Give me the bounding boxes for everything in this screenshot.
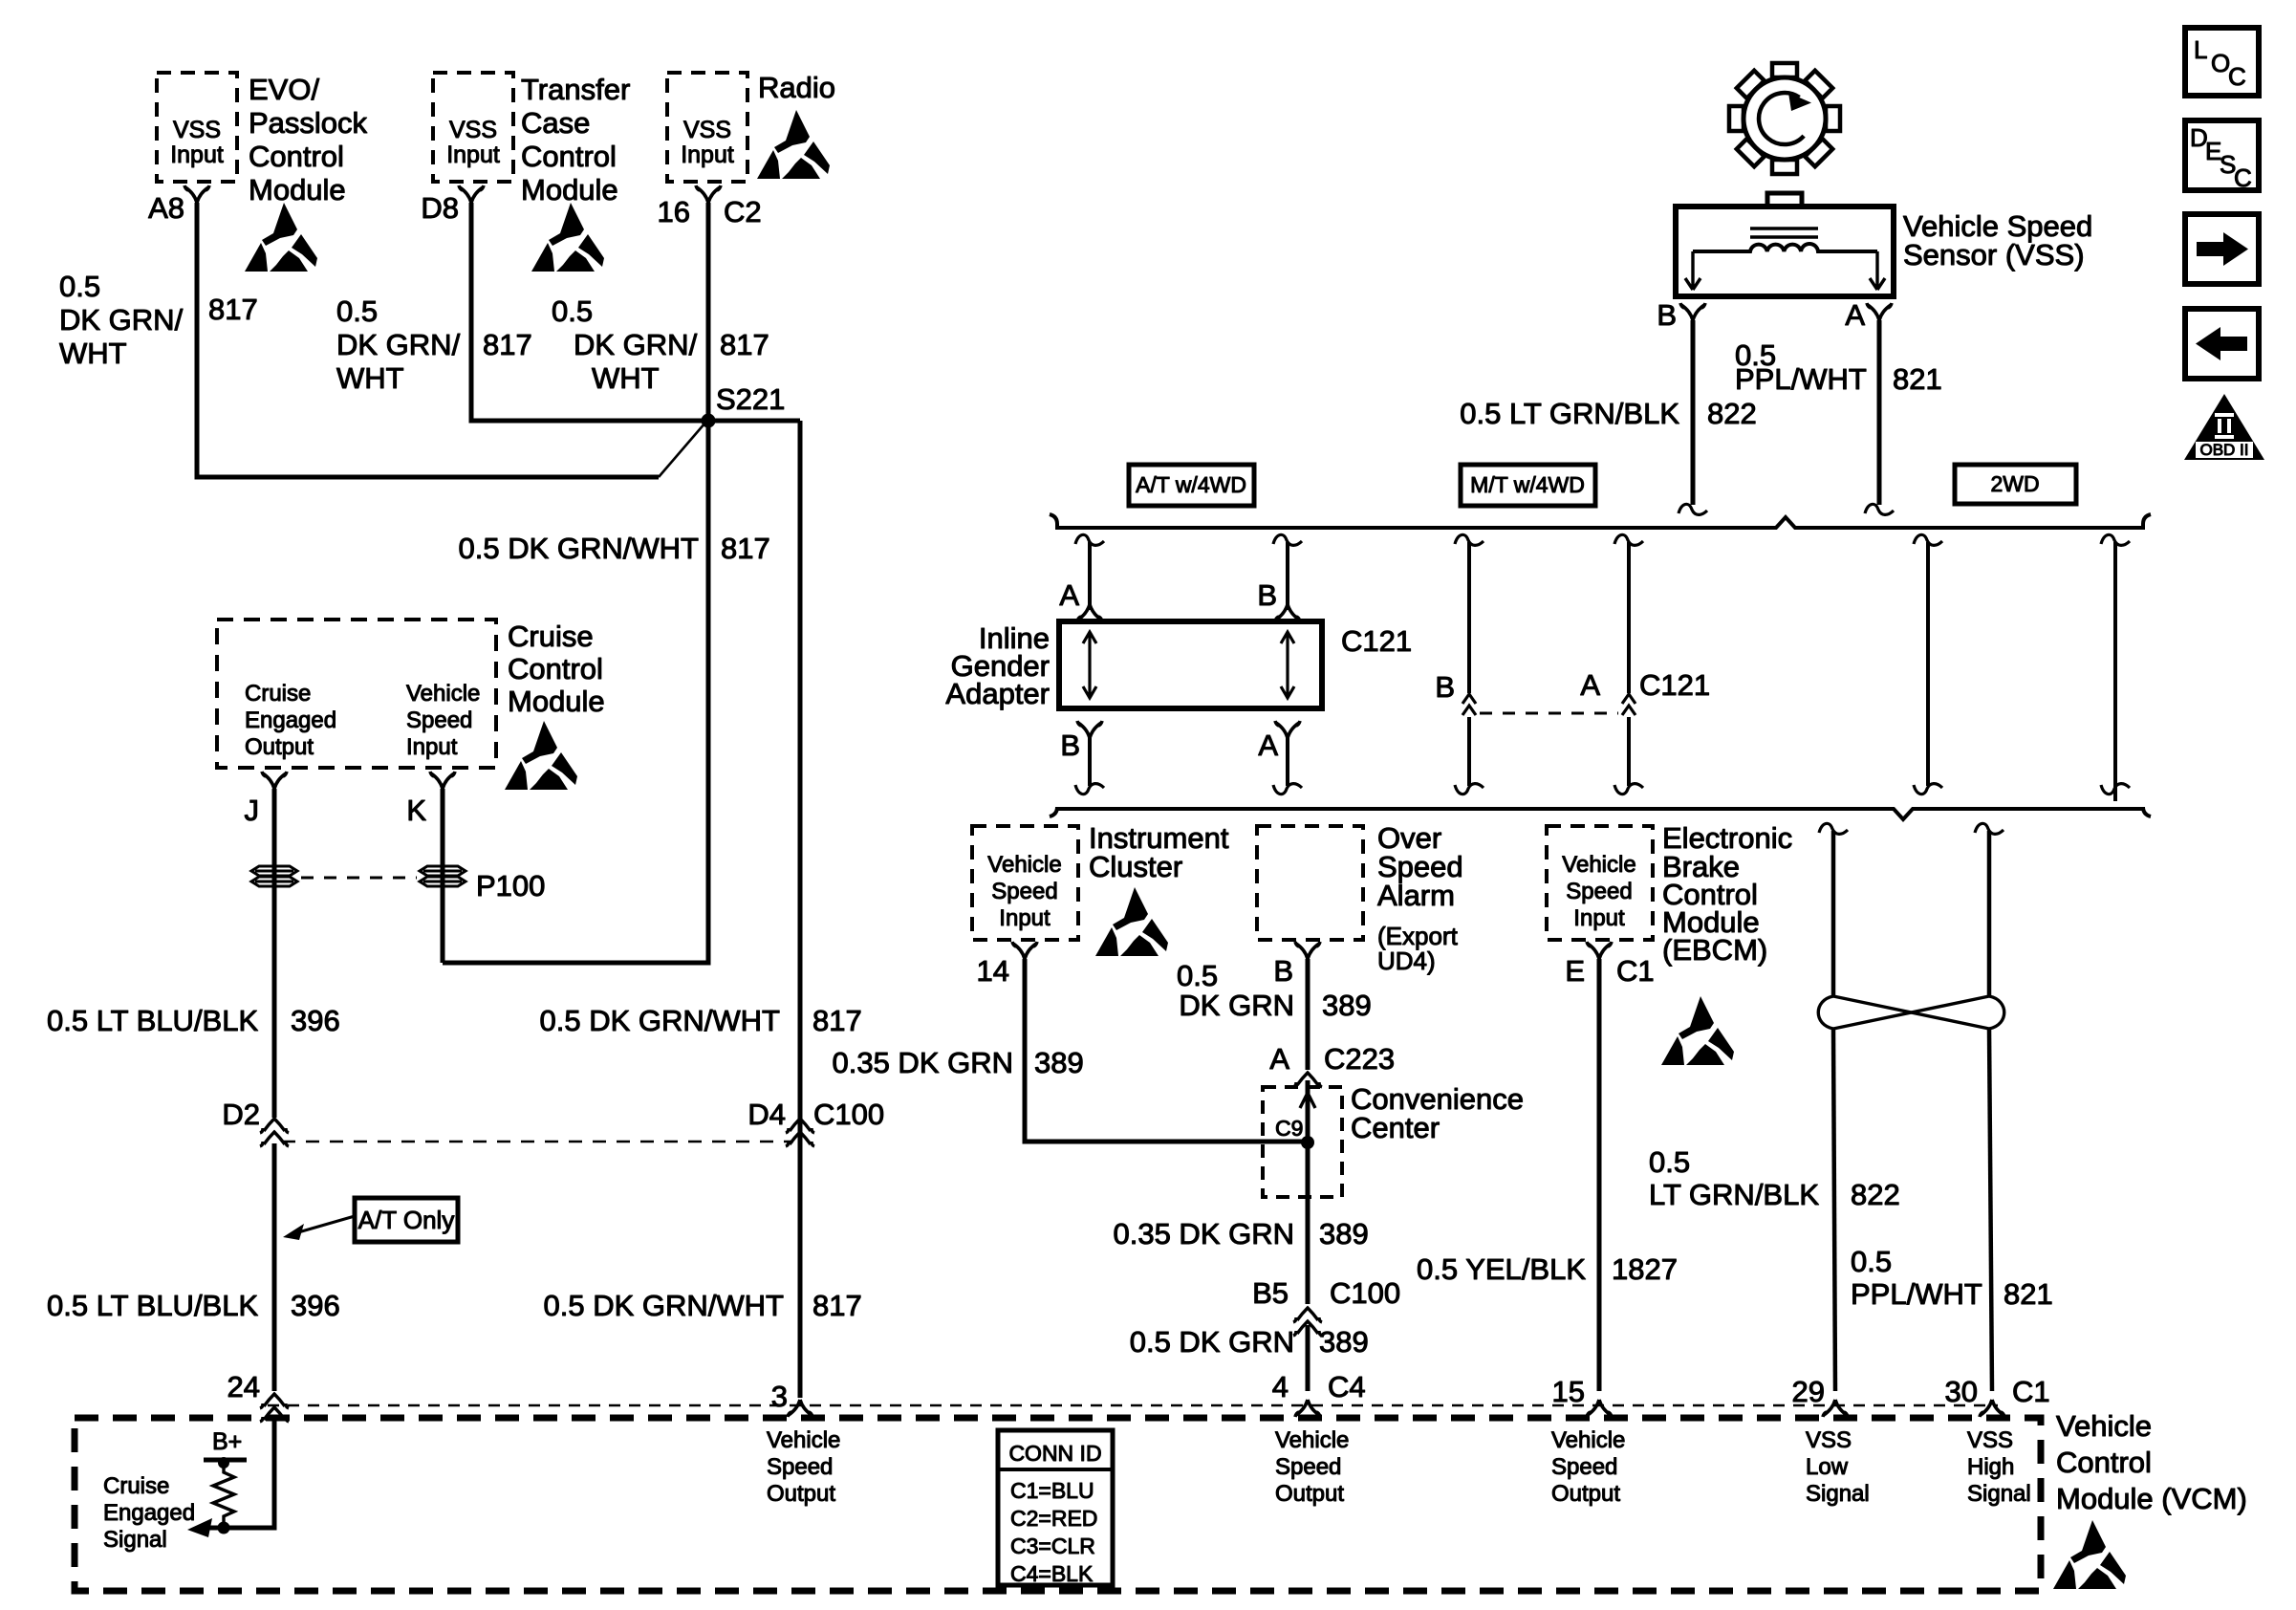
svg-text:Alarm: Alarm [1377, 879, 1455, 912]
svg-text:Cluster: Cluster [1089, 850, 1182, 883]
svg-text:C4: C4 [1328, 1370, 1366, 1403]
CONN ID table box [998, 1430, 1113, 1586]
svg-text:Transfer: Transfer [521, 73, 630, 106]
svg-text:C121: C121 [1639, 668, 1710, 702]
svg-text:817: 817 [721, 532, 770, 565]
svg-text:Control: Control [521, 140, 617, 173]
svg-text:Output: Output [1551, 1481, 1620, 1507]
svg-text:Cruise: Cruise [508, 620, 594, 653]
svg-text:Engaged: Engaged [103, 1500, 195, 1526]
option wire 6 (2WD right) [2101, 534, 2130, 801]
option box A/T w/4WD [1129, 465, 1254, 506]
svg-text:M/T w/4WD: M/T w/4WD [1470, 472, 1585, 497]
wire 1827 from EBCM E to VCM pin 15 [1597, 959, 1602, 1391]
svg-text:2WD: 2WD [1990, 471, 2039, 496]
svg-text:B: B [1435, 670, 1455, 704]
wire into convenience center [1306, 1080, 1310, 1197]
svg-text:Module: Module [521, 173, 618, 207]
module M6 Over Speed Alarm box [1257, 826, 1363, 940]
wire 817 main descent [798, 421, 803, 1398]
svg-text:Vehicle: Vehicle [1551, 1427, 1625, 1453]
svg-text:Speed: Speed [406, 707, 472, 733]
brace bottom alternatives [1050, 807, 2151, 819]
option wire 4 (M/T A) C121 [1580, 534, 1710, 794]
svg-text:30: 30 [1945, 1375, 1978, 1408]
connector A C223 break [1293, 1073, 1322, 1087]
svg-text:0.5: 0.5 [336, 294, 378, 328]
svg-text:Vehicle: Vehicle [767, 1427, 840, 1453]
wire A8 vertical from EVO box [197, 203, 659, 477]
svg-text:Input: Input [170, 141, 224, 168]
wire VSS high signal (30) upper [1975, 823, 2004, 996]
svg-text:Module: Module [249, 173, 346, 207]
svg-text:817: 817 [812, 1004, 862, 1037]
svg-text:Input: Input [999, 905, 1051, 931]
svg-text:C100: C100 [813, 1098, 884, 1131]
dashed link between P100 grommets [301, 877, 417, 880]
svg-text:Control: Control [2056, 1446, 2152, 1479]
svg-text:VSS: VSS [449, 117, 497, 143]
ESD symbol for EVO module [245, 203, 317, 272]
svg-text:C2=RED: C2=RED [1010, 1506, 1097, 1531]
resistor R cruise engaged pull-up [213, 1465, 234, 1524]
svg-text:396: 396 [291, 1289, 340, 1322]
wire 822 from VSS B [1691, 320, 1696, 505]
svg-text:Input: Input [681, 141, 734, 168]
pin connector E C1 [1587, 942, 1612, 959]
svg-text:C121: C121 [1341, 624, 1412, 658]
icon LOC box [2185, 28, 2259, 96]
svg-text:3: 3 [771, 1380, 788, 1413]
svg-text:C1: C1 [2012, 1375, 2050, 1408]
svg-text:PPL/WHT: PPL/WHT [1851, 1277, 1982, 1311]
connector break D4 C100 on 817 wire [786, 1119, 814, 1133]
svg-text:389: 389 [1319, 1217, 1369, 1251]
svg-text:Output: Output [1275, 1481, 1344, 1507]
wire 389 below convenience center [1306, 1197, 1310, 1304]
svg-text:0.5 LT BLU/BLK: 0.5 LT BLU/BLK [47, 1289, 258, 1322]
svg-text:Speed: Speed [1275, 1454, 1341, 1480]
svg-text:0.5 DK GRN: 0.5 DK GRN [1130, 1325, 1294, 1359]
svg-text:C: C [2228, 62, 2246, 91]
svg-text:Input: Input [446, 141, 500, 168]
svg-text:Vehicle: Vehicle [1562, 852, 1635, 878]
svg-text:Signal: Signal [1806, 1481, 1870, 1507]
svg-text:UD4): UD4) [1377, 946, 1436, 975]
module M5 Instrument Cluster VSS input box [972, 826, 1078, 940]
ESD symbol for EBCM [1661, 996, 1734, 1065]
connector break B5 C100 [1293, 1308, 1322, 1322]
B+ terminal [204, 1428, 247, 1469]
svg-text:Control: Control [508, 652, 603, 685]
svg-text:Speed: Speed [1551, 1454, 1617, 1480]
wire J resume below C100 to pin 24 [272, 1143, 277, 1391]
svg-text:E: E [1565, 954, 1585, 988]
ESD symbol for Radio [757, 110, 830, 179]
component U1 Vehicle Speed Sensor box [1676, 193, 1894, 296]
pin connector A of VSS [1867, 303, 1892, 320]
wire C2 vertical to S221 [706, 203, 711, 421]
svg-text:CONN ID: CONN ID [1008, 1441, 1101, 1466]
svg-text:Signal: Signal [103, 1527, 167, 1553]
svg-text:D2: D2 [222, 1098, 260, 1131]
svg-text:0.5: 0.5 [552, 294, 593, 328]
svg-text:396: 396 [291, 1004, 340, 1037]
option box 2WD [1955, 465, 2076, 504]
svg-text:14: 14 [977, 954, 1009, 988]
svg-text:S221: S221 [716, 382, 785, 416]
svg-text:Cruise: Cruise [245, 681, 311, 707]
svg-text:VSS: VSS [1806, 1427, 1852, 1453]
svg-text:24: 24 [227, 1370, 260, 1403]
wire K from cruise to P100 and return [441, 789, 445, 963]
svg-text:DK GRN/: DK GRN/ [574, 328, 698, 361]
svg-text:WHT: WHT [59, 337, 127, 370]
svg-text:VSS: VSS [1967, 1427, 2013, 1453]
svg-text:0.5: 0.5 [1177, 959, 1218, 992]
svg-text:C1: C1 [1616, 954, 1655, 988]
svg-text:VSS: VSS [173, 117, 221, 143]
svg-text:DK GRN: DK GRN [1179, 989, 1294, 1022]
svg-text:High: High [1967, 1454, 2014, 1480]
pin connector D8 [459, 185, 484, 203]
svg-text:A8: A8 [148, 191, 184, 225]
connector face dashed line above VCM [268, 1404, 1998, 1406]
svg-text:Radio: Radio [758, 71, 835, 104]
svg-text:A/T w/4WD: A/T w/4WD [1136, 472, 1246, 497]
svg-text:0.5: 0.5 [1649, 1145, 1690, 1179]
svg-text:LT GRN/BLK: LT GRN/BLK [1649, 1178, 1819, 1211]
brace top alternatives [1050, 514, 2151, 528]
svg-text:Output: Output [767, 1481, 835, 1507]
ESD symbol for Instrument Cluster [1095, 887, 1168, 956]
option wire 2 lower (A) [1258, 721, 1302, 794]
grommet P100 on J wire [251, 866, 297, 886]
svg-text:A/T Only: A/T Only [358, 1206, 455, 1234]
svg-text:0.35 DK GRN: 0.35 DK GRN [1113, 1217, 1294, 1251]
svg-text:Low: Low [1806, 1454, 1849, 1480]
svg-text:L: L [2194, 35, 2207, 64]
wire J cruise engaged to D2 [272, 789, 277, 1118]
svg-text:0.5 LT GRN/BLK: 0.5 LT GRN/BLK [1460, 397, 1679, 430]
svg-text:0.5 LT BLU/BLK: 0.5 LT BLU/BLK [47, 1004, 258, 1037]
svg-text:821: 821 [2004, 1277, 2053, 1311]
svg-text:C9: C9 [1275, 1116, 1303, 1141]
svg-text:Adapter: Adapter [945, 677, 1050, 710]
wire 389 from alarm B [1306, 959, 1310, 1070]
ESD symbol for Transfer Case module [531, 203, 604, 272]
option wire 2 (A/T B) [1257, 534, 1302, 621]
wire to VCM pin 30 [1989, 1029, 1992, 1391]
option box M/T w/4WD [1461, 465, 1595, 506]
svg-text:DK GRN/: DK GRN/ [336, 328, 461, 361]
wire to VCM pin 29 [1833, 1029, 1835, 1391]
module M9 Vehicle Control Module (VCM) box [75, 1418, 2041, 1591]
pin connector B of VSS [1680, 303, 1705, 320]
wire 389 to VCM pin 4 [1306, 1325, 1310, 1391]
svg-text:C: C [2234, 163, 2252, 192]
svg-text:Vehicle: Vehicle [406, 681, 480, 707]
svg-text:WHT: WHT [592, 361, 660, 395]
option wire 1 lower (B) [1060, 721, 1104, 794]
pin 15 connector [1587, 1400, 1612, 1417]
svg-text:Speed: Speed [991, 879, 1057, 904]
svg-text:0.5 DK GRN/WHT: 0.5 DK GRN/WHT [459, 532, 700, 565]
svg-text:A: A [1258, 729, 1278, 762]
callout box A/T Only [283, 1198, 458, 1242]
wire D8 vertical then right to S221 [471, 203, 800, 421]
svg-text:0.5: 0.5 [59, 270, 100, 303]
svg-text:389: 389 [1322, 989, 1372, 1022]
wire pin 24 internal to resistor [224, 1418, 274, 1528]
connector break D2 on J wire [260, 1119, 289, 1133]
svg-text:DK GRN/: DK GRN/ [59, 303, 184, 337]
module M7 Convenience Center box [1263, 1087, 1342, 1197]
svg-text:B: B [1657, 298, 1677, 332]
wire 817 below S221 to K-return [443, 421, 708, 963]
svg-text:Input: Input [406, 734, 458, 760]
svg-text:822: 822 [1707, 397, 1757, 430]
svg-text:Sensor (VSS): Sensor (VSS) [1903, 238, 2085, 272]
svg-text:4: 4 [1272, 1370, 1289, 1403]
svg-text:15: 15 [1552, 1375, 1585, 1408]
svg-text:A: A [1059, 578, 1079, 612]
ESD symbol for Cruise Control Module [505, 721, 577, 790]
svg-text:Vehicle: Vehicle [1275, 1427, 1349, 1453]
svg-text:B: B [1060, 729, 1080, 762]
svg-text:Cruise: Cruise [103, 1473, 169, 1499]
svg-text:B+: B+ [212, 1428, 242, 1455]
svg-text:C100: C100 [1330, 1276, 1400, 1310]
svg-text:Module: Module [508, 685, 605, 718]
module M8 EBCM VSS input box [1547, 826, 1653, 940]
arrow cruise engaged signal [187, 1518, 224, 1537]
wire 389 from cluster pin 14 to C9 [1025, 959, 1302, 1142]
wire diagonal A8 run to S221 [659, 423, 705, 477]
splice S221 [702, 414, 716, 428]
option wire 3 (M/T B) [1435, 534, 1484, 794]
svg-text:817: 817 [812, 1289, 862, 1322]
svg-text:822: 822 [1851, 1178, 1900, 1211]
svg-text:B5: B5 [1252, 1276, 1289, 1310]
svg-text:Input: Input [1573, 905, 1625, 931]
svg-text:Signal: Signal [1967, 1481, 2031, 1507]
svg-text:Engaged: Engaged [245, 707, 336, 733]
dashed link C121 M/T [1480, 712, 1618, 715]
module M3 Radio VSS Input box [667, 73, 747, 182]
svg-text:Speed: Speed [1566, 879, 1632, 904]
svg-text:389: 389 [1319, 1325, 1369, 1359]
module M2 Transfer Case VSS Input box [433, 73, 513, 182]
svg-text:817: 817 [208, 293, 258, 326]
junction C9 splice dot [1301, 1136, 1314, 1149]
pin connector 14 [1012, 942, 1037, 959]
svg-text:D8: D8 [421, 191, 459, 225]
svg-text:Center: Center [1351, 1111, 1440, 1144]
svg-text:Passlock: Passlock [249, 106, 368, 140]
svg-text:Module (VCM): Module (VCM) [2056, 1482, 2247, 1515]
svg-text:Speed: Speed [767, 1454, 833, 1480]
svg-text:16: 16 [658, 195, 690, 228]
svg-text:VSS: VSS [683, 117, 731, 143]
svg-text:C2: C2 [724, 195, 762, 228]
icon OBD II triangle [2184, 394, 2264, 460]
svg-text:P100: P100 [476, 869, 545, 903]
svg-text:Case: Case [521, 106, 590, 140]
svg-text:Control: Control [249, 140, 344, 173]
connector C100 dashed line [282, 1141, 793, 1143]
component VSS tone wheel (gear) [1729, 63, 1840, 174]
svg-text:B: B [1273, 954, 1293, 988]
svg-text:0.35 DK GRN: 0.35 DK GRN [832, 1046, 1013, 1079]
svg-text:EVO/: EVO/ [249, 73, 319, 106]
pin 4 connector [1295, 1400, 1320, 1417]
svg-text:C3=CLR: C3=CLR [1010, 1534, 1095, 1558]
pin connector B of alarm [1295, 942, 1320, 959]
svg-text:C4=BLK: C4=BLK [1010, 1561, 1094, 1586]
svg-text:(EBCM): (EBCM) [1662, 933, 1767, 967]
twisted pair symbol [1818, 996, 2004, 1029]
module M4 Cruise Control Module box [217, 620, 496, 768]
svg-text:Output: Output [245, 734, 314, 760]
svg-text:0.5 DK GRN/WHT: 0.5 DK GRN/WHT [540, 1004, 781, 1037]
svg-text:821: 821 [1893, 362, 1942, 396]
svg-text:389: 389 [1034, 1046, 1084, 1079]
pin 24 connector [260, 1394, 289, 1408]
pin 29 connector [1823, 1400, 1848, 1417]
svg-text:PPL/WHT: PPL/WHT [1735, 362, 1867, 396]
svg-text:817: 817 [483, 328, 532, 361]
svg-text:D4: D4 [747, 1098, 786, 1131]
connector C121 Inline Gender Adapter box [1059, 621, 1322, 708]
svg-text:0.5: 0.5 [1851, 1245, 1892, 1278]
icon right-arrow box [2185, 214, 2259, 284]
option wire 5 (2WD left) [1914, 534, 1942, 794]
svg-text:1827: 1827 [1612, 1252, 1678, 1286]
pin connector K [430, 772, 455, 789]
icon left-arrow box [2185, 309, 2259, 379]
svg-text:J: J [245, 794, 260, 827]
pin connector 16 C2 [696, 185, 721, 203]
svg-text:WHT: WHT [336, 361, 404, 395]
svg-text:B: B [1257, 578, 1277, 612]
junction dot resistor to pin 24 [218, 1522, 230, 1534]
pin connector A8 [184, 185, 209, 203]
pin connector J [262, 772, 287, 789]
svg-text:C1=BLU: C1=BLU [1010, 1478, 1094, 1503]
ESD symbol for VCM [2053, 1520, 2126, 1589]
svg-text:OBD II: OBD II [2199, 441, 2248, 459]
wire VSS low signal (29) upper [1819, 823, 1848, 996]
icon DESC box [2185, 120, 2259, 192]
option wire 1 (A/T A) [1059, 534, 1104, 621]
svg-text:0.5 DK GRN/WHT: 0.5 DK GRN/WHT [544, 1289, 785, 1322]
svg-text:Vehicle: Vehicle [987, 852, 1061, 878]
module M1 EVO/Passlock VSS Input box [157, 73, 237, 182]
svg-text:Vehicle: Vehicle [2056, 1409, 2152, 1443]
svg-text:A: A [1580, 668, 1600, 702]
svg-text:0.5 YEL/BLK: 0.5 YEL/BLK [1417, 1252, 1586, 1286]
pin 30 connector [1980, 1400, 2004, 1417]
svg-text:C223: C223 [1324, 1042, 1395, 1076]
pin 3 connector [788, 1400, 812, 1417]
grommet P100 on K wire [420, 866, 466, 886]
wire 821 from VSS A [1877, 320, 1882, 505]
svg-text:817: 817 [720, 328, 769, 361]
svg-text:K: K [406, 794, 426, 827]
svg-text:A: A [1845, 298, 1865, 332]
svg-text:29: 29 [1792, 1375, 1825, 1408]
svg-text:A: A [1269, 1042, 1289, 1076]
